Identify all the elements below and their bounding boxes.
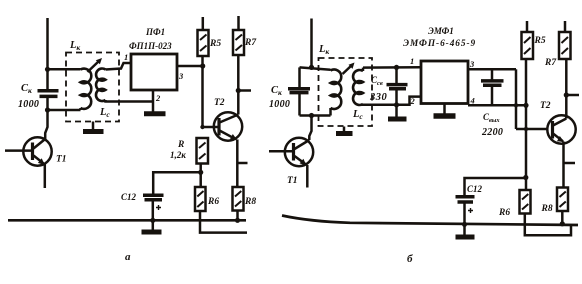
wire R5 to base node left: [201, 56, 204, 127]
svg-text:2: 2: [410, 96, 416, 106]
capacitor C12 left: [121, 172, 201, 231]
svg-text:T1: T1: [287, 176, 298, 186]
svg-text:330: 330: [369, 92, 388, 103]
svg-text:ФП1П-023: ФП1П-023: [129, 41, 172, 51]
ground shield right: [336, 127, 353, 134]
resistor R5 right: [522, 21, 546, 59]
node C12 / rail right: [462, 222, 467, 227]
node C12 / rail left: [150, 218, 155, 223]
inductor Lk left: [69, 40, 91, 110]
svg-text:1000: 1000: [269, 99, 290, 110]
pin 2 stub and label left: [153, 90, 161, 112]
svg-text:ЭМФП-6-465-9: ЭМФП-6-465-9: [403, 39, 476, 49]
ground C12 left: [142, 230, 162, 235]
capacitor Ck right 1000: [269, 67, 310, 115]
tuning arrow right: [343, 63, 355, 75]
svg-text:Lс: Lс: [352, 109, 363, 121]
ground Csv right: [388, 105, 407, 119]
svg-text:R5: R5: [209, 39, 221, 49]
wire collector T1 left: [45, 110, 47, 139]
svg-text:T2: T2: [214, 98, 225, 108]
capacitor Csv 330 right: [369, 67, 408, 104]
svg-text:C12: C12: [121, 192, 137, 202]
node tank-top right: [309, 65, 314, 70]
svg-text:Cк: Cк: [21, 83, 32, 95]
svg-text:ЭМФ1: ЭМФ1: [428, 26, 454, 36]
svg-text:R8: R8: [244, 197, 256, 207]
node tank-top left: [45, 67, 50, 72]
pin 4 label right: [470, 96, 475, 106]
wire R8 to rail right: [560, 211, 565, 226]
pin 3 label right: [469, 59, 475, 69]
wire tank top right: [300, 67, 331, 69]
transistor T2 right: [540, 101, 576, 144]
shield box (dashed) left: [66, 53, 119, 122]
svg-text:3: 3: [178, 71, 184, 81]
ground filter right: [434, 104, 456, 117]
wire supply stub left: [46, 18, 49, 70]
resistor R8 right: [541, 188, 569, 215]
svg-text:Lк: Lк: [318, 44, 329, 56]
wire base T2 right: [516, 127, 548, 131]
svg-text:Lк: Lк: [69, 40, 80, 52]
wire tank top left: [48, 68, 81, 71]
svg-text:1: 1: [410, 56, 414, 66]
pin 1 label left: [124, 52, 128, 62]
inductor Lc right: [352, 68, 363, 121]
tuning arrow left: [88, 58, 103, 72]
transistor T1 left: [5, 137, 67, 188]
resistor R7 left: [233, 16, 257, 55]
svg-text:ПФ1: ПФ1: [145, 27, 165, 37]
wire R7 to collector right: [564, 59, 579, 119]
wire pin 4 right: [468, 103, 529, 108]
resistor R5 left: [198, 17, 222, 56]
ground filter left: [144, 111, 166, 116]
transistor T2 left: [200, 98, 242, 141]
rail ground right: [282, 216, 578, 226]
rail ground left: [8, 219, 246, 222]
svg-text:1000: 1000: [18, 99, 39, 110]
wire tank bottom left: [45, 107, 81, 112]
wire pin3 drop to base right: [515, 69, 518, 129]
pin 2 label right: [410, 96, 416, 106]
svg-text:б: б: [407, 253, 413, 265]
wire R7 to collector left: [236, 55, 251, 115]
resistor R7 right: [544, 21, 571, 68]
caption b: [407, 253, 413, 265]
inductor Lc left: [96, 68, 110, 119]
svg-text:T2: T2: [540, 101, 551, 111]
svg-text:2200: 2200: [481, 127, 503, 138]
svg-text:R6: R6: [207, 197, 219, 207]
filter U1 PF1 FP1P-023: [129, 27, 177, 90]
capacitor Cvyh 2200 right: [481, 69, 504, 138]
svg-text:1: 1: [124, 52, 128, 62]
pin 1 label right: [410, 56, 414, 66]
wire tank bottom right: [300, 113, 331, 118]
resistor R 1,2k left: [170, 138, 208, 164]
svg-text:Cвых: Cвых: [483, 112, 500, 124]
transistor T1 right: [269, 138, 313, 188]
ground shield left: [83, 122, 104, 132]
svg-text:Cк: Cк: [271, 85, 282, 97]
wire supply stub right: [310, 19, 313, 68]
capacitor C12 right: [456, 178, 526, 235]
ground C12 right: [456, 235, 475, 240]
wire R8 to rail left: [235, 211, 240, 223]
wire emitter T2 right: [564, 142, 576, 188]
wire Lc top to filter pin 1 left: [106, 63, 132, 70]
capacitor Ck left 1000: [18, 69, 59, 110]
svg-text:а: а: [125, 251, 131, 263]
svg-text:1,2к: 1,2к: [170, 150, 186, 160]
resistor R8 left: [233, 187, 257, 211]
wire pin 3 right: [468, 68, 516, 71]
svg-text:3: 3: [469, 59, 475, 69]
wire bias chain R5-R6 right: [523, 59, 528, 190]
shield box (dashed) right: [319, 58, 373, 126]
wire collector T1 right: [309, 116, 311, 141]
svg-text:R8: R8: [541, 204, 553, 214]
svg-text:T1: T1: [56, 155, 67, 165]
resistor R6 left: [195, 187, 219, 211]
svg-text:R5: R5: [534, 36, 546, 46]
svg-text:R: R: [177, 140, 184, 150]
svg-text:R6: R6: [498, 208, 510, 218]
svg-text:C12: C12: [467, 184, 483, 194]
inductor Lk right: [318, 44, 341, 116]
wire Lc bottom / pin 2 right: [363, 97, 421, 108]
svg-text:2: 2: [155, 93, 161, 103]
pin 3 label left: [178, 71, 184, 81]
wire Lc top to filter pin 1 right: [363, 65, 421, 70]
svg-text:R7: R7: [544, 58, 557, 68]
svg-text:4: 4: [470, 96, 475, 106]
wire pin 3 output left: [177, 63, 205, 68]
filter U2 EMF1: [403, 26, 476, 104]
svg-text:R7: R7: [244, 38, 257, 48]
wire emitter T2 left: [237, 140, 247, 188]
wire Lc bottom to pin 2 left: [106, 100, 154, 102]
wire R to R6 left: [198, 164, 203, 188]
caption a: [125, 251, 131, 263]
wire R6 bottom jog right: [525, 214, 571, 236]
svg-text:Lс: Lс: [99, 107, 110, 119]
resistor R6 right: [498, 190, 531, 218]
wire R6 bottom jog left: [200, 211, 247, 233]
